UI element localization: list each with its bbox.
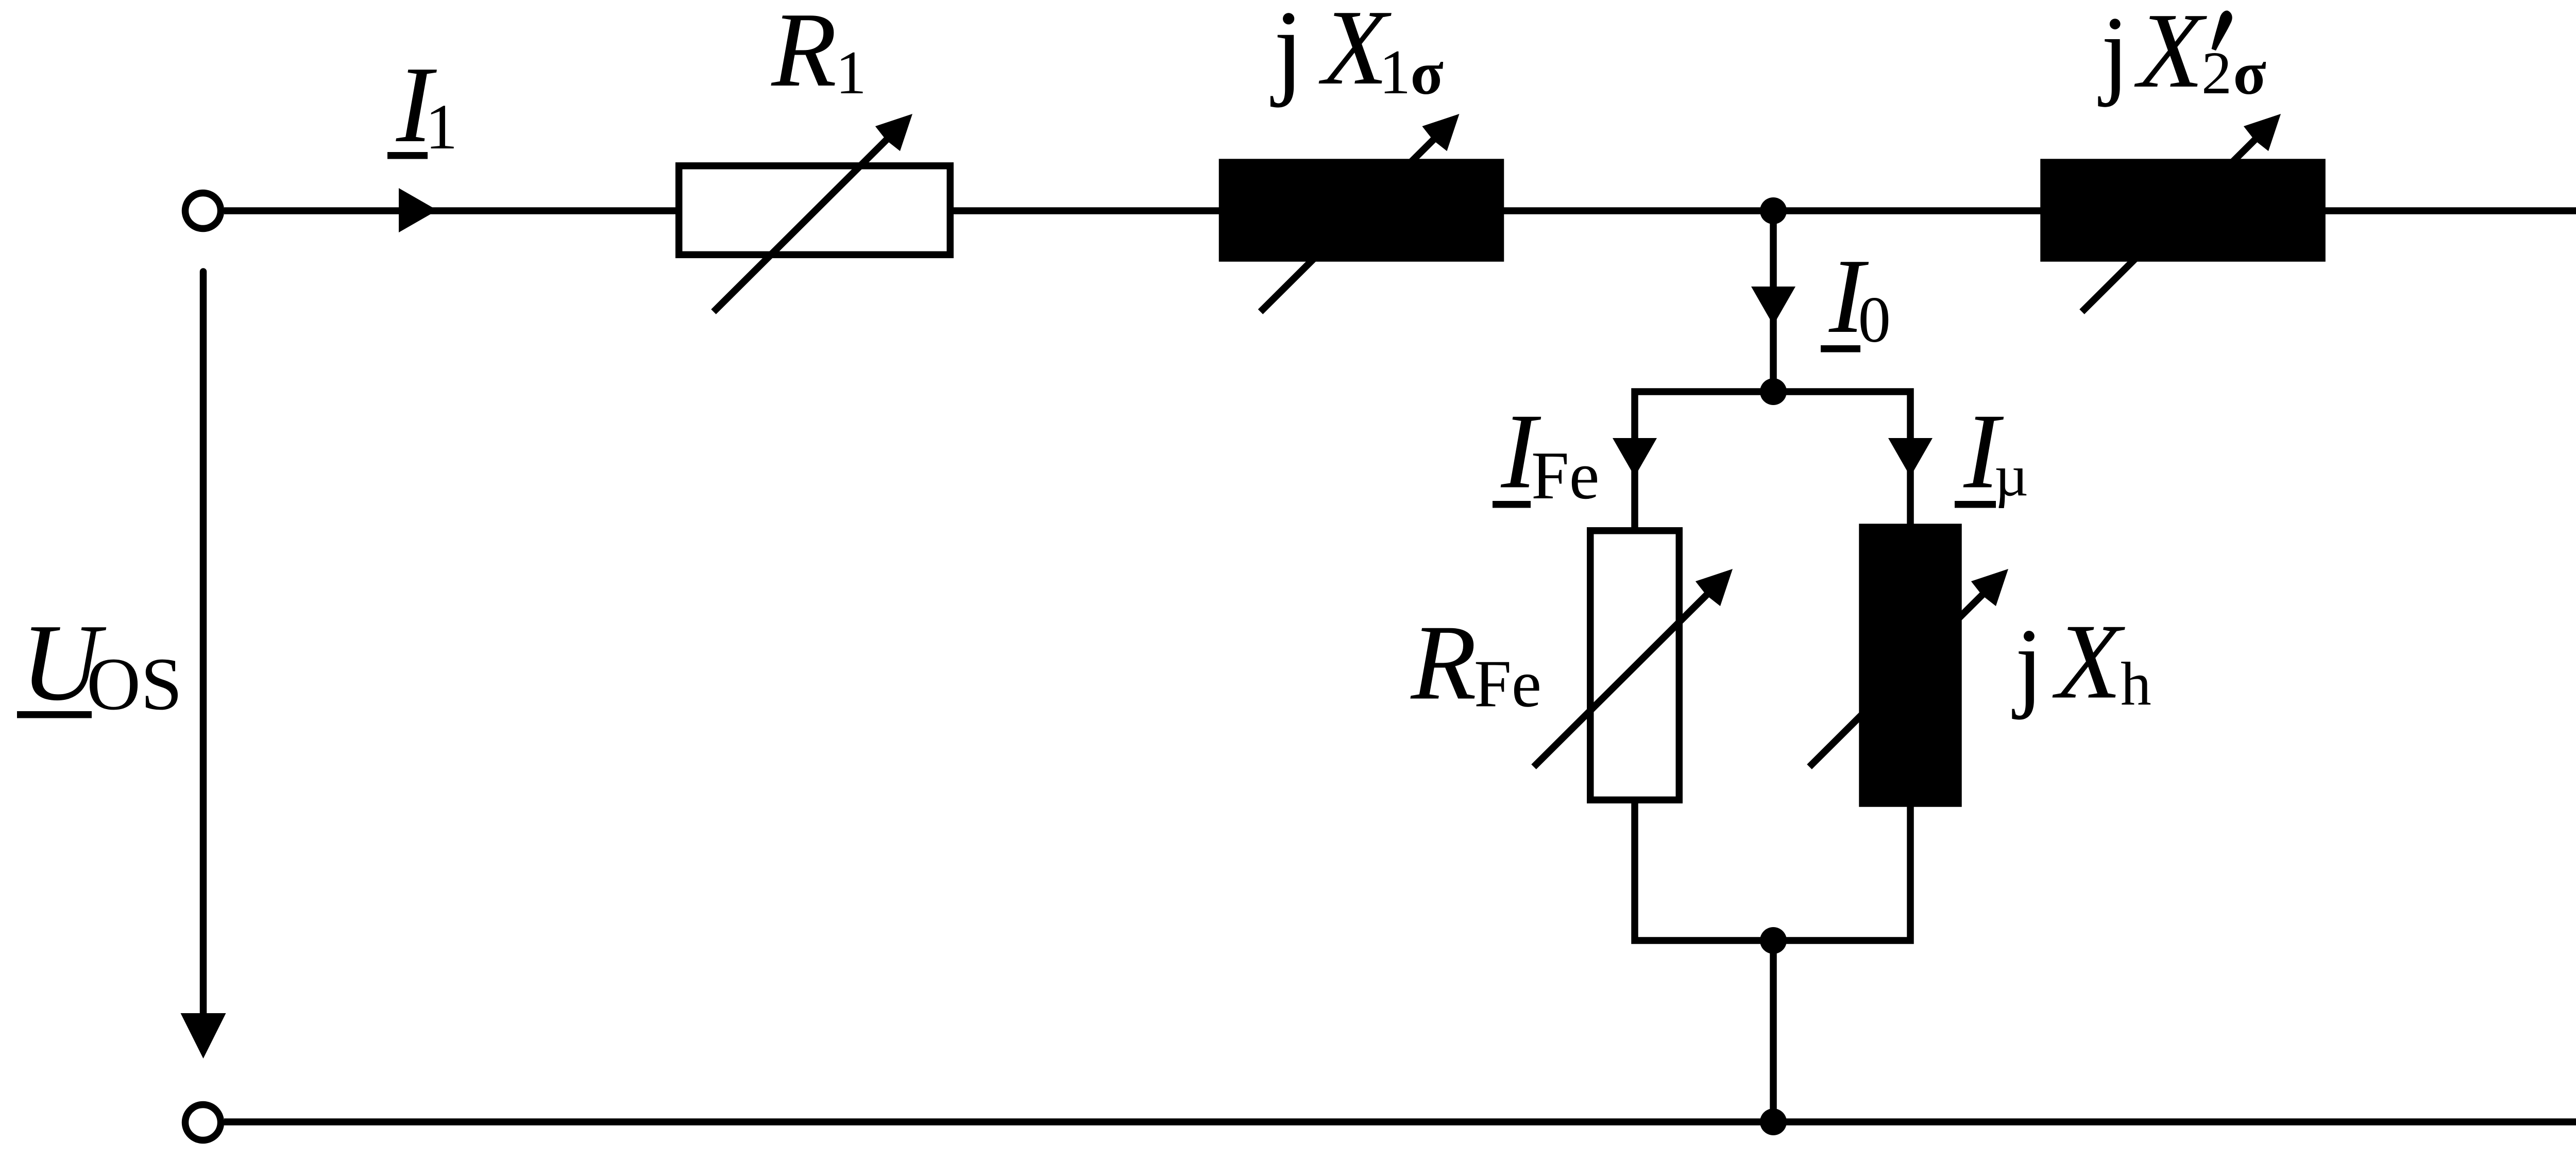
svg-text:j: j <box>2012 608 2043 720</box>
svg-text:1: 1 <box>836 39 867 107</box>
svg-text:1: 1 <box>1379 38 1411 107</box>
svg-text:σ: σ <box>2233 40 2266 107</box>
svg-text:µ: µ <box>1994 443 2028 509</box>
svg-text:σ: σ <box>1411 40 1444 107</box>
svg-text:j: j <box>1270 0 1303 108</box>
svg-text:R: R <box>771 0 837 109</box>
svg-text:j: j <box>2098 0 2129 108</box>
svg-text:X: X <box>2053 602 2126 721</box>
svg-text:h: h <box>2121 650 2151 718</box>
svg-text:Fe: Fe <box>1531 438 1600 513</box>
svg-text:Fe: Fe <box>1474 647 1541 721</box>
svg-text:1: 1 <box>426 91 458 163</box>
svg-text:X: X <box>2134 0 2208 110</box>
svg-text:OS: OS <box>87 643 182 726</box>
svg-text:R: R <box>1410 603 1477 723</box>
svg-text:2: 2 <box>2201 39 2232 107</box>
svg-text:0: 0 <box>1858 284 1891 356</box>
